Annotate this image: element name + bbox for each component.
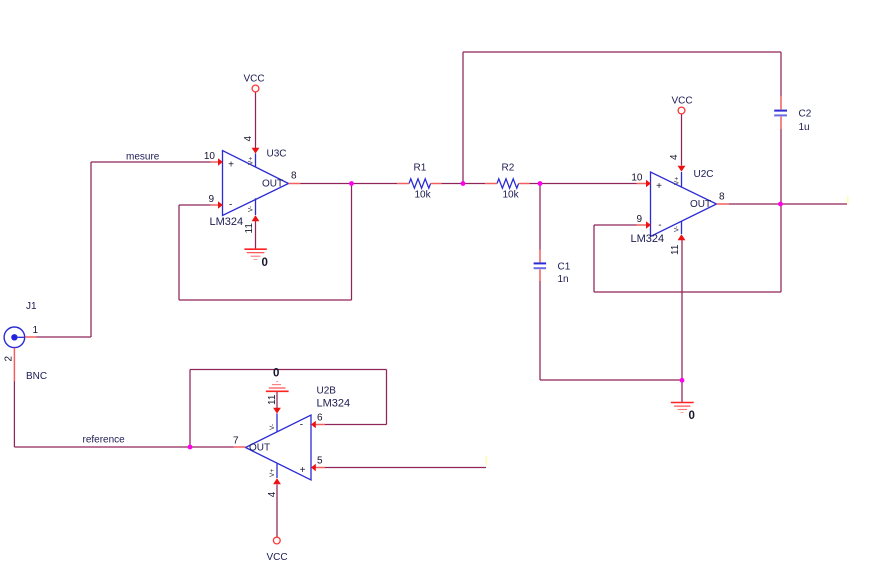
svg-text:0: 0: [689, 410, 695, 422]
svg-text:LM324: LM324: [210, 216, 244, 228]
svg-text:9: 9: [208, 194, 214, 205]
wire U2C feedback bottom: [594, 291, 781, 293]
svg-text:OUT: OUT: [262, 179, 283, 190]
wire C1 bottom down: [539, 281, 541, 380]
pin arrow U2C pin10: [646, 180, 651, 188]
op-amp U2B pin4 inner line: [276, 463, 278, 478]
svg-text:4: 4: [267, 491, 278, 497]
pin stub U2B pin6: [315, 424, 325, 426]
wire U3C out to R1: [301, 183, 398, 185]
pin arrow U2B pin11: [273, 408, 281, 414]
node junction reference net: [188, 445, 193, 450]
pin arrow U2B pin5: [311, 464, 316, 472]
op-amp U2C pin11 inner line: [681, 221, 683, 234]
svg-text:U3C: U3C: [267, 149, 287, 160]
pin stub R2 right: [519, 183, 530, 185]
pin arrow U3C pin10: [218, 158, 223, 166]
pin stub C1 top: [539, 250, 541, 263]
node junction R2 right C1: [538, 181, 543, 186]
pin stub U3C out: [289, 183, 301, 185]
power VCC symbol U3C: [252, 85, 259, 92]
resistor R2 body: [497, 179, 519, 188]
svg-text:-: -: [229, 200, 232, 211]
svg-text:OUT: OUT: [690, 199, 711, 210]
pin stub J1 pin1: [25, 336, 37, 338]
wire U3C pin9 stub left: [179, 204, 211, 206]
pin arrow U2B pin4: [273, 478, 281, 484]
wire top loop vertical left: [462, 52, 464, 184]
svg-text:10: 10: [631, 173, 643, 184]
wire VCC to U3C pin4: [255, 92, 257, 148]
svg-text:1u: 1u: [799, 122, 810, 133]
svg-text:BNC: BNC: [26, 371, 47, 382]
pin arrow U2B pin6: [311, 421, 316, 429]
wire U2C pin9 stub left: [594, 224, 637, 226]
svg-text:J1: J1: [26, 301, 37, 312]
ground 0 below U2C: [671, 403, 694, 413]
wire U2B feedback top: [190, 369, 387, 371]
wire U2B pin5 net: [325, 467, 486, 469]
pin stub U3C pin10: [211, 161, 219, 163]
svg-text:0: 0: [273, 368, 279, 380]
svg-text:U2C: U2C: [694, 169, 714, 180]
pin arrow U3C pin4: [252, 148, 260, 154]
op-amp U2C triangle: [651, 172, 717, 237]
op-amp U3C pin4 inner line: [255, 154, 257, 168]
op-amp U2C pin4 inner line: [681, 172, 683, 187]
wire R2 to U2C pin10: [530, 183, 637, 185]
op-amp U2B triangle: [246, 415, 312, 480]
capacitor C2 plates: [774, 110, 787, 112]
svg-text:OUT: OUT: [249, 443, 270, 454]
wire C2 to U2C out junction: [780, 129, 782, 204]
svg-text:8: 8: [291, 171, 297, 182]
power VCC symbol U2C: [678, 107, 685, 114]
wire U3C feedback bottom: [179, 299, 352, 301]
svg-text:+: +: [228, 160, 234, 171]
svg-text:V-: V-: [248, 206, 255, 212]
wire U2B feedback to pin6: [325, 424, 387, 426]
svg-text:4: 4: [243, 136, 254, 142]
node junction R1 right top loop: [461, 181, 466, 186]
wire J1 pin2 down: [13, 381, 15, 447]
svg-text:1: 1: [33, 325, 39, 336]
pin arrow U2C pin4: [678, 166, 686, 172]
svg-text:+: +: [656, 181, 662, 192]
pin stub C1 bottom: [539, 269, 541, 281]
svg-text:LM324: LM324: [631, 233, 665, 245]
connector J1 BNC center pin: [11, 334, 17, 340]
wire junction to C1 top: [539, 184, 541, 250]
svg-text:10k: 10k: [415, 189, 432, 200]
off-page marker right out: [847, 196, 849, 204]
svg-text:0: 0: [262, 257, 268, 269]
svg-text:VCC: VCC: [244, 74, 265, 85]
svg-text:+: +: [300, 465, 306, 476]
svg-text:V+: V+: [248, 157, 255, 165]
svg-text:LM324: LM324: [317, 398, 351, 410]
wire C1 to ground junction: [540, 379, 682, 381]
wire ground junction to ground: [681, 380, 683, 402]
power VCC symbol U2B: [273, 537, 280, 544]
svg-text:1n: 1n: [558, 274, 569, 285]
pin stub C2 bottom: [780, 117, 782, 129]
pin stub U2B out: [234, 446, 246, 448]
svg-text:11: 11: [267, 394, 278, 405]
wire R1 to R2: [442, 183, 486, 185]
svg-text:6: 6: [317, 413, 323, 424]
svg-text:C1: C1: [558, 261, 571, 272]
wire U2C pin11 down: [681, 240, 683, 380]
wire mesure net vertical: [90, 162, 92, 337]
capacitor C1 plates: [534, 262, 547, 264]
svg-text:11: 11: [244, 223, 255, 234]
node junction U3C out feedback: [349, 181, 354, 186]
wire U2B feedback vertical right: [386, 370, 388, 425]
svg-text:9: 9: [636, 214, 642, 225]
node junction ground net: [680, 378, 685, 383]
ground 0 below U3C: [244, 249, 266, 259]
svg-text:11: 11: [670, 244, 681, 255]
ground 0 above U2B (flipped): [266, 382, 289, 392]
wire J1 pin1 to corner: [37, 336, 92, 338]
svg-text:8: 8: [719, 192, 725, 203]
svg-text:7: 7: [233, 435, 239, 446]
connector J1 BNC outer ring: [4, 327, 25, 348]
wire mesure net horizontal: [91, 161, 211, 163]
svg-text:R1: R1: [414, 163, 427, 174]
wire U3C feedback vertical left: [178, 205, 180, 300]
wire VCC to U2C pin4: [681, 114, 683, 166]
svg-text:V-: V-: [674, 226, 681, 232]
wire U2B feedback vertical left: [189, 370, 191, 448]
svg-text:R2: R2: [502, 163, 515, 174]
svg-text:C2: C2: [799, 109, 812, 120]
svg-text:-: -: [658, 220, 661, 231]
op-amp U3C triangle: [223, 151, 289, 216]
svg-text:10k: 10k: [503, 189, 520, 200]
pin stub U3C pin9: [211, 204, 219, 206]
svg-text:VCC: VCC: [267, 552, 288, 563]
svg-text:2: 2: [4, 356, 15, 362]
pin stub J1 pin2: [13, 348, 15, 382]
svg-text:mesure: mesure: [126, 152, 160, 163]
node junction U2C out: [778, 202, 783, 207]
pin stub U2B pin5: [315, 467, 325, 469]
svg-text:reference: reference: [83, 435, 126, 446]
svg-text:5: 5: [317, 456, 323, 467]
pin arrow U3C pin11: [252, 215, 260, 221]
resistor R1 body: [409, 179, 431, 188]
wire U2B pin11 to ground: [276, 392, 278, 409]
wire U2C feedback vertical right: [780, 204, 782, 292]
pin stub U2C out: [717, 203, 729, 205]
pin stub C2 top: [780, 96, 782, 110]
pin arrow U2C pin11: [678, 234, 686, 240]
connector J1 BNC inner stub: [16, 336, 25, 338]
pin stub U2C pin9: [637, 224, 648, 226]
pin stub U2C pin10: [637, 183, 648, 185]
svg-text:V+: V+: [674, 177, 681, 185]
wire U2B pin4 to VCC: [276, 485, 278, 538]
off-page marker pin5 net: [485, 456, 487, 466]
wire U3C feedback vertical right: [351, 184, 353, 301]
op-amp U3C pin11 inner line: [255, 198, 257, 215]
svg-text:10: 10: [204, 151, 216, 162]
wire U3C pin11 to ground: [255, 221, 257, 249]
pin stub R1 left: [397, 183, 409, 185]
pin arrow U3C pin9: [218, 201, 223, 209]
op-amp U2B pin11 inner line: [276, 414, 278, 432]
wire U2C out net right: [729, 203, 847, 205]
pin stub R1 right: [431, 183, 442, 185]
wire top loop horizontal: [463, 51, 781, 53]
pin stub R2 left: [485, 183, 497, 185]
svg-text:-: -: [300, 419, 303, 430]
svg-text:U2B: U2B: [317, 386, 337, 397]
wire reference net horizontal: [14, 446, 233, 448]
wire U2C feedback vertical left: [593, 225, 595, 292]
wire top loop to C2: [780, 52, 782, 96]
pin arrow U2C pin9: [646, 221, 651, 229]
svg-text:VCC: VCC: [672, 96, 693, 107]
svg-text:V+: V+: [269, 469, 276, 477]
svg-text:V-: V-: [269, 424, 276, 430]
svg-text:4: 4: [669, 154, 680, 160]
